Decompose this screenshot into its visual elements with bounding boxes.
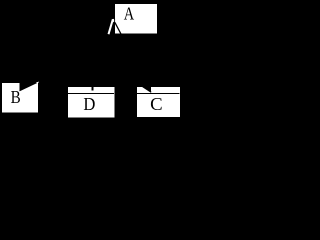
svg-text:D: D	[83, 94, 95, 114]
box A left border segment	[114, 19, 116, 24]
background (transparent exterior of original, stored as black)	[0, 0, 181, 121]
svg-text:A: A	[124, 3, 135, 23]
wire: diagonal stub from bus into C	[143, 87, 152, 93]
wire: connector segment visible inside B	[20, 82, 39, 91]
frame border of image	[1, 1, 181, 121]
tick from bus into D	[92, 87, 94, 91]
white sliver above B top edge at corner	[36, 82, 39, 84]
arrowhead into A (open barbs; white over dark bg, black over box)	[109, 19, 122, 35]
svg-text:B: B	[11, 87, 21, 107]
box A	[115, 3, 157, 33]
svg-text:C: C	[150, 94, 163, 114]
wire: long connector from box B corner up to arrowhead at A	[38, 20, 113, 82]
wire: horizontal bus line from B area to right frame	[40, 86, 180, 88]
transparent notch above incoming line inside B top-right corner	[20, 83, 36, 91]
box D	[68, 87, 115, 118]
divider line across D	[68, 93, 114, 95]
box B	[2, 82, 38, 113]
transparent notch in C band above incoming line	[143, 87, 151, 92]
divider line across C	[137, 92, 180, 94]
box C	[137, 87, 180, 117]
